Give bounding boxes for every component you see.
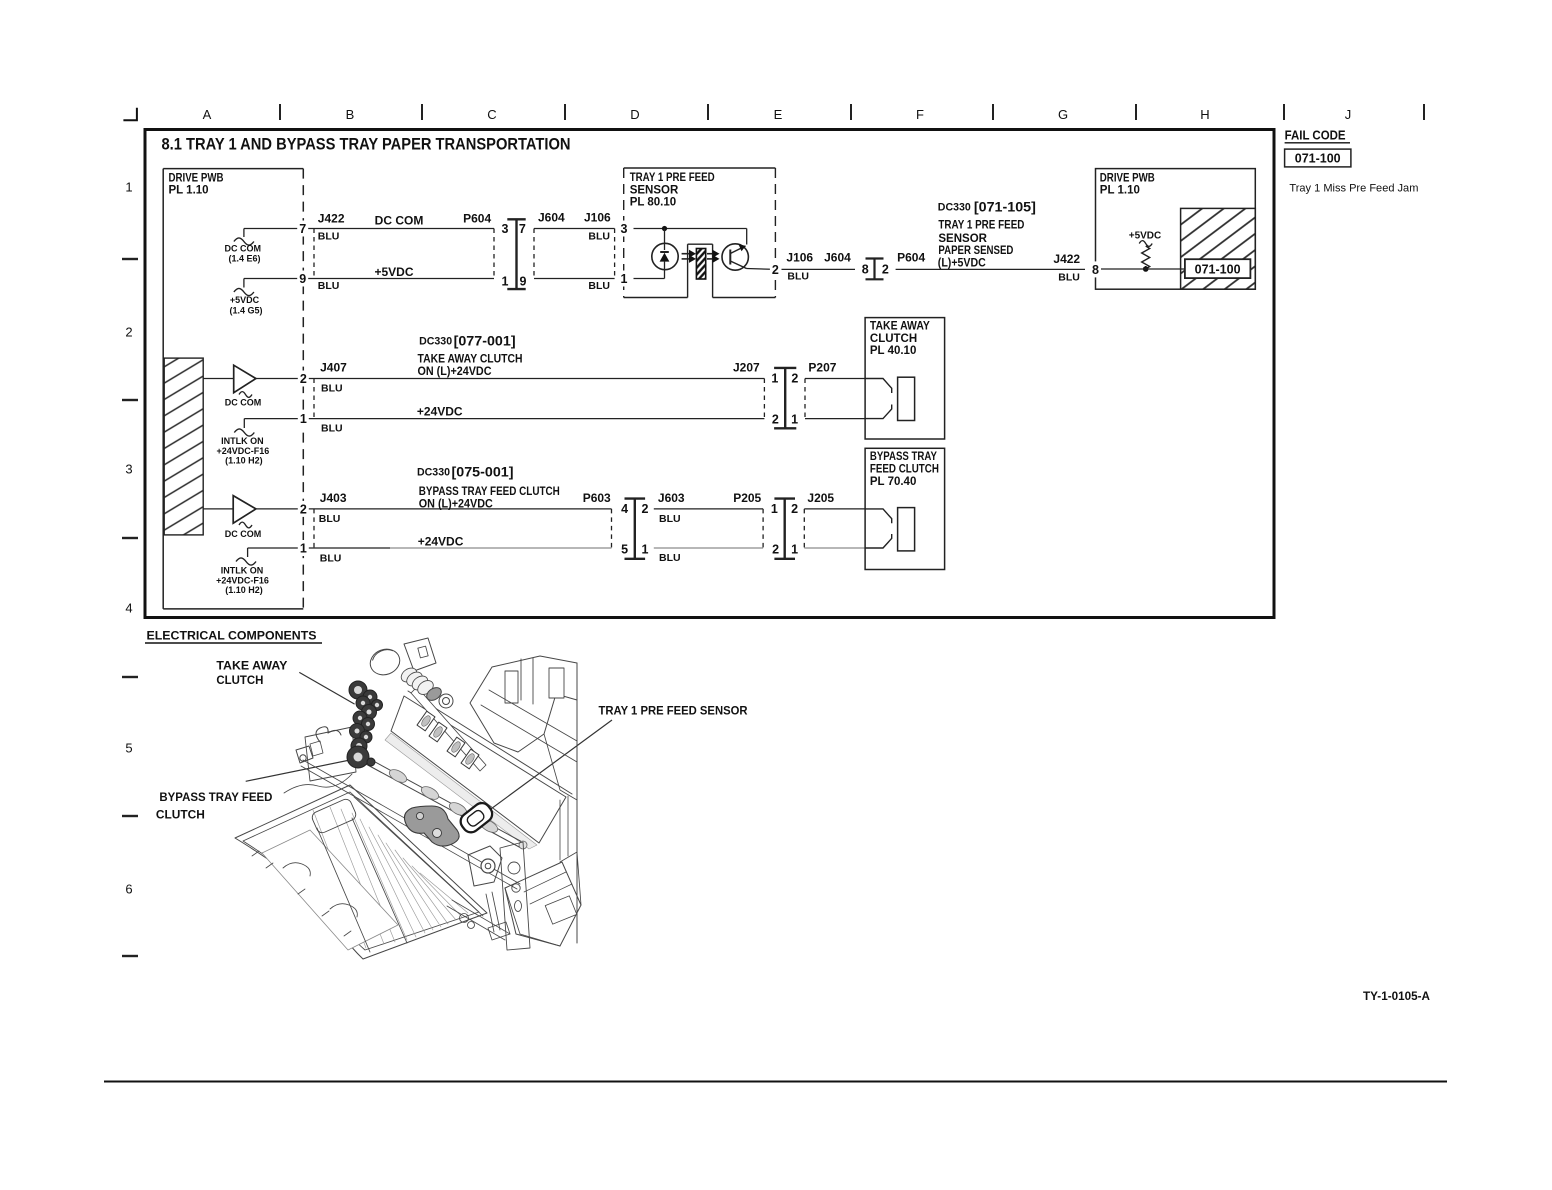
svg-text:+24VDC-F16: +24VDC-F16 xyxy=(217,446,270,456)
sensor phototransistor xyxy=(722,244,775,270)
svg-text:CLUTCH: CLUTCH xyxy=(216,673,263,687)
Tray 1 Pre Feed Sensor box xyxy=(624,168,776,298)
svg-text:FAIL CODE: FAIL CODE xyxy=(1285,129,1346,143)
svg-text:J403: J403 xyxy=(320,491,347,505)
wire P207 to take away clutch xyxy=(805,361,865,419)
wire pin8 into fail code box xyxy=(1101,268,1185,270)
sensor pin 2 xyxy=(770,261,781,277)
svg-text:FEED CLUTCH: FEED CLUTCH xyxy=(870,464,939,476)
FAIL CODE heading xyxy=(1285,129,1350,143)
svg-text:J422: J422 xyxy=(1053,252,1080,266)
svg-text:TAKE AWAY: TAKE AWAY xyxy=(216,659,287,673)
svg-text:(L)+5VDC: (L)+5VDC xyxy=(938,258,986,270)
svg-text:071-100: 071-100 xyxy=(1295,151,1341,165)
svg-text:BLU: BLU xyxy=(1058,272,1080,284)
svg-text:+24VDC: +24VDC xyxy=(417,405,463,419)
svg-text:+24VDC-F16: +24VDC-F16 xyxy=(216,575,269,585)
connector P603/J603 xyxy=(621,499,648,559)
wire P604 to J422 pin 8 with DC330 [071-105] note xyxy=(896,200,1085,284)
svg-text:9: 9 xyxy=(520,275,527,289)
svg-text:1: 1 xyxy=(771,502,778,516)
sensor pin 1 xyxy=(619,271,630,287)
svg-text:P604: P604 xyxy=(463,211,491,225)
svg-text:1: 1 xyxy=(791,412,798,426)
svg-text:DRIVE PWB: DRIVE PWB xyxy=(1100,173,1155,185)
svg-text:J205: J205 xyxy=(807,491,834,505)
Drive PWB pin 1 (J403) xyxy=(298,540,309,556)
svg-text:BLU: BLU xyxy=(659,513,681,525)
Drive PWB pin 7 xyxy=(297,221,308,237)
svg-text:E: E xyxy=(774,107,783,122)
svg-text:7: 7 xyxy=(299,222,306,236)
wire sensor pin2 to connector J106/J604 xyxy=(782,251,856,283)
svg-text:BYPASS TRAY FEED CLUTCH: BYPASS TRAY FEED CLUTCH xyxy=(419,486,560,498)
leader line to take away clutch xyxy=(299,672,354,704)
svg-text:DC330: DC330 xyxy=(938,202,971,214)
label TRAY 1 PRE FEED SENSOR xyxy=(599,704,748,718)
svg-text:[075-001]: [075-001] xyxy=(452,465,514,480)
svg-text:BLU: BLU xyxy=(787,271,809,283)
svg-text:2: 2 xyxy=(882,263,889,277)
svg-text:2: 2 xyxy=(791,371,798,385)
svg-text:8.1 TRAY 1 AND BYPASS TRAY PAP: 8.1 TRAY 1 AND BYPASS TRAY PAPER TRANSPO… xyxy=(162,136,571,154)
Bypass Tray Feed Clutch box xyxy=(865,448,945,569)
svg-text:J422: J422 xyxy=(318,211,345,225)
svg-text:8: 8 xyxy=(862,263,869,277)
svg-text:+5VDC: +5VDC xyxy=(230,295,260,305)
leader line to bypass clutch xyxy=(246,759,357,782)
svg-text:TAKE AWAY: TAKE AWAY xyxy=(870,321,930,333)
svg-text:2: 2 xyxy=(125,325,132,340)
svg-text:BYPASS TRAY: BYPASS TRAY xyxy=(870,451,937,463)
column ruler tick separators xyxy=(280,104,1424,120)
wire harness J422 to P604 xyxy=(314,211,494,292)
svg-text:BLU: BLU xyxy=(320,553,342,565)
svg-text:1: 1 xyxy=(300,542,307,556)
svg-text:ELECTRICAL COMPONENTS: ELECTRICAL COMPONENTS xyxy=(147,629,317,643)
wire harness J403 to P603 xyxy=(314,465,612,565)
sensor internal wiring node pin3 xyxy=(634,226,747,250)
INTLK ON +24VDC-F16 stub (row 3) xyxy=(216,548,314,595)
svg-text:+5VDC: +5VDC xyxy=(374,265,413,279)
light arrows flag to phototransistor xyxy=(707,250,720,263)
svg-text:(1.10 H2): (1.10 H2) xyxy=(225,585,263,595)
schematic outer border xyxy=(145,130,1274,618)
svg-text:ON (L)+24VDC: ON (L)+24VDC xyxy=(418,366,492,378)
row ruler numbers 1-6 xyxy=(125,180,132,897)
svg-text:071-100: 071-100 xyxy=(1195,262,1241,276)
svg-text:J603: J603 xyxy=(658,491,685,505)
svg-text:DC COM: DC COM xyxy=(225,529,262,539)
svg-text:J106: J106 xyxy=(584,211,611,225)
svg-text:INTLK ON: INTLK ON xyxy=(221,436,264,446)
svg-text:DRIVE PWB: DRIVE PWB xyxy=(169,173,224,185)
svg-text:2: 2 xyxy=(772,412,779,426)
mechanical illustration: tray and feeder assembly xyxy=(235,638,581,959)
svg-text:+24VDC: +24VDC xyxy=(418,535,464,549)
svg-text:BLU: BLU xyxy=(319,513,341,525)
svg-text:P205: P205 xyxy=(733,491,761,505)
pull-up resistor +5VDC xyxy=(1129,231,1162,272)
svg-text:BLU: BLU xyxy=(321,423,343,435)
tray 1 pre feed sensor part xyxy=(457,800,495,836)
wire harness J407 to J207 xyxy=(314,334,764,435)
svg-text:J207: J207 xyxy=(733,361,760,375)
svg-text:BLU: BLU xyxy=(588,280,610,292)
svg-text:P604: P604 xyxy=(897,251,925,265)
title xyxy=(162,136,571,154)
svg-text:1: 1 xyxy=(502,275,509,289)
svg-text:PL 40.10: PL 40.10 xyxy=(870,345,916,357)
svg-text:1: 1 xyxy=(791,542,798,556)
svg-text:1: 1 xyxy=(621,272,628,286)
row ruler tick marks xyxy=(122,259,138,956)
svg-text:Tray 1 Miss Pre Feed Jam: Tray 1 Miss Pre Feed Jam xyxy=(1289,182,1418,194)
Take Away Clutch box xyxy=(865,318,945,439)
svg-text:CLUTCH: CLUTCH xyxy=(870,333,917,345)
svg-text:TRAY 1 PRE FEED: TRAY 1 PRE FEED xyxy=(938,220,1024,232)
svg-text:TY-1-0105-A: TY-1-0105-A xyxy=(1363,989,1430,1003)
svg-text:PL 70.40: PL 70.40 xyxy=(870,476,916,488)
driver buffer for bypass tray feed clutch xyxy=(203,496,314,539)
drawing-frame corner mark top-left xyxy=(123,108,136,121)
svg-text:BLU: BLU xyxy=(318,230,340,242)
svg-text:8: 8 xyxy=(1092,263,1099,277)
Drive PWB pin 9 xyxy=(297,271,308,287)
interlock hatched bar on Drive PWB xyxy=(164,358,203,535)
svg-text:ON (L)+24VDC: ON (L)+24VDC xyxy=(419,498,493,510)
svg-text:2: 2 xyxy=(791,502,798,516)
svg-text:(1.4 G5): (1.4 G5) xyxy=(229,306,262,316)
svg-text:2: 2 xyxy=(300,502,307,516)
connector P604/J604 xyxy=(502,219,527,289)
svg-text:(1.4 E6): (1.4 E6) xyxy=(228,254,260,264)
fail code description xyxy=(1289,182,1418,194)
svg-text:A: A xyxy=(203,107,212,122)
INTLK ON +24VDC-F16 stub (row 2) xyxy=(217,419,314,466)
connector J207/P207 xyxy=(771,368,798,428)
connector P205/J205 xyxy=(771,499,798,559)
wire harness J604 to J106 xyxy=(534,211,615,292)
svg-text:PL 80.10: PL 80.10 xyxy=(630,197,676,209)
ELECTRICAL COMPONENTS heading xyxy=(145,629,322,644)
svg-text:3: 3 xyxy=(125,462,132,477)
svg-text:CLUTCH: CLUTCH xyxy=(156,807,205,821)
svg-text:BLU: BLU xyxy=(321,383,343,395)
svg-text:C: C xyxy=(487,107,496,122)
drawing number xyxy=(1363,989,1430,1003)
bypass clutch coil symbol xyxy=(865,508,915,551)
wire J205 to bypass clutch xyxy=(804,491,865,548)
svg-text:DC COM: DC COM xyxy=(225,398,262,408)
svg-text:SENSOR: SENSOR xyxy=(630,184,679,196)
sensor pin 3 xyxy=(619,221,630,237)
wire harness J603 to P205 xyxy=(654,491,763,564)
Drive PWB (right) box xyxy=(1096,169,1256,290)
svg-text:P603: P603 xyxy=(583,491,611,505)
svg-text:9: 9 xyxy=(299,272,306,286)
label BYPASS TRAY FEED CLUTCH xyxy=(156,790,273,821)
label TAKE AWAY CLUTCH xyxy=(216,659,287,688)
svg-text:[077-001]: [077-001] xyxy=(454,334,516,349)
svg-text:J604: J604 xyxy=(538,211,565,225)
Drive PWB (left) box xyxy=(163,169,303,609)
sensor LED emitter xyxy=(652,243,678,278)
svg-text:5: 5 xyxy=(125,741,132,756)
svg-text:J407: J407 xyxy=(320,361,347,375)
Drive PWB pin 1 (J407) xyxy=(298,411,309,427)
bypass tray feed clutch gear xyxy=(347,746,375,768)
svg-text:J106: J106 xyxy=(786,251,813,265)
svg-text:(1.10 H2): (1.10 H2) xyxy=(225,455,263,465)
svg-text:4: 4 xyxy=(621,502,628,516)
svg-text:F: F xyxy=(916,107,924,122)
svg-text:[071-105]: [071-105] xyxy=(974,200,1036,215)
svg-text:2: 2 xyxy=(642,502,649,516)
interrupter flag (hatched) xyxy=(696,249,705,280)
svg-text:DC330: DC330 xyxy=(419,336,452,348)
svg-text:PL 1.10: PL 1.10 xyxy=(1100,185,1140,197)
svg-text:1: 1 xyxy=(125,180,132,195)
svg-text:J: J xyxy=(1345,107,1352,122)
svg-text:H: H xyxy=(1200,107,1209,122)
svg-text:J604: J604 xyxy=(824,251,851,265)
+5VDC (1.4 G5) off-page stub at pin 9 xyxy=(229,279,314,316)
svg-text:7: 7 xyxy=(519,222,526,236)
light arrows LED to flag xyxy=(682,250,696,263)
svg-text:3: 3 xyxy=(621,222,628,236)
svg-text:TRAY 1 PRE FEED SENSOR: TRAY 1 PRE FEED SENSOR xyxy=(599,704,748,718)
feed roller assembly (dark) xyxy=(404,806,459,846)
svg-text:BLU: BLU xyxy=(318,280,340,292)
Drive PWB pin 2 (J407) xyxy=(298,371,309,387)
svg-text:TAKE AWAY CLUTCH: TAKE AWAY CLUTCH xyxy=(418,354,523,366)
svg-text:4: 4 xyxy=(125,601,132,616)
svg-text:1: 1 xyxy=(300,412,307,426)
driver buffer for take away clutch xyxy=(203,365,314,407)
Drive PWB pin 2 (J403) xyxy=(298,501,309,517)
column ruler letters A-J xyxy=(203,107,1352,122)
svg-text:5: 5 xyxy=(621,542,628,556)
svg-text:BYPASS TRAY FEED: BYPASS TRAY FEED xyxy=(159,790,272,804)
svg-text:6: 6 xyxy=(125,882,132,897)
svg-text:INTLK ON: INTLK ON xyxy=(221,566,264,576)
svg-text:DC COM: DC COM xyxy=(225,244,262,254)
fail region hatched block xyxy=(1181,208,1256,289)
svg-text:3: 3 xyxy=(502,222,509,236)
svg-text:2: 2 xyxy=(772,263,779,277)
svg-text:1: 1 xyxy=(771,371,778,385)
svg-text:BLU: BLU xyxy=(659,552,681,564)
fail code tag 071-100 xyxy=(1185,259,1251,278)
svg-text:PAPER SENSED: PAPER SENSED xyxy=(938,245,1013,257)
DC COM (1.4 E6) off-page stub at pin 7 xyxy=(225,229,314,264)
take away clutch coil symbol xyxy=(865,377,915,420)
svg-text:2: 2 xyxy=(772,542,779,556)
svg-text:TRAY 1 PRE FEED: TRAY 1 PRE FEED xyxy=(630,172,715,184)
connector J604/P604 (single pin) xyxy=(862,259,889,280)
footer rule xyxy=(104,1081,1447,1083)
svg-text:BLU: BLU xyxy=(588,230,610,242)
leader line to sensor xyxy=(480,720,612,817)
svg-text:SENSOR: SENSOR xyxy=(938,233,987,245)
svg-text:DC330: DC330 xyxy=(417,467,450,479)
svg-text:B: B xyxy=(346,107,355,122)
Drive PWB right pin 8 xyxy=(1090,261,1101,277)
svg-text:1: 1 xyxy=(642,542,649,556)
svg-text:D: D xyxy=(630,107,639,122)
take away clutch gear cluster xyxy=(349,681,383,754)
sensor pin1 wire xyxy=(634,278,665,280)
svg-text:+5VDC: +5VDC xyxy=(1129,231,1162,242)
svg-text:DC COM: DC COM xyxy=(375,214,424,228)
svg-text:P207: P207 xyxy=(808,361,836,375)
fail code box 071-100 xyxy=(1285,149,1351,167)
svg-text:PL 1.10: PL 1.10 xyxy=(169,185,209,197)
svg-text:2: 2 xyxy=(300,372,307,386)
svg-text:G: G xyxy=(1058,107,1068,122)
